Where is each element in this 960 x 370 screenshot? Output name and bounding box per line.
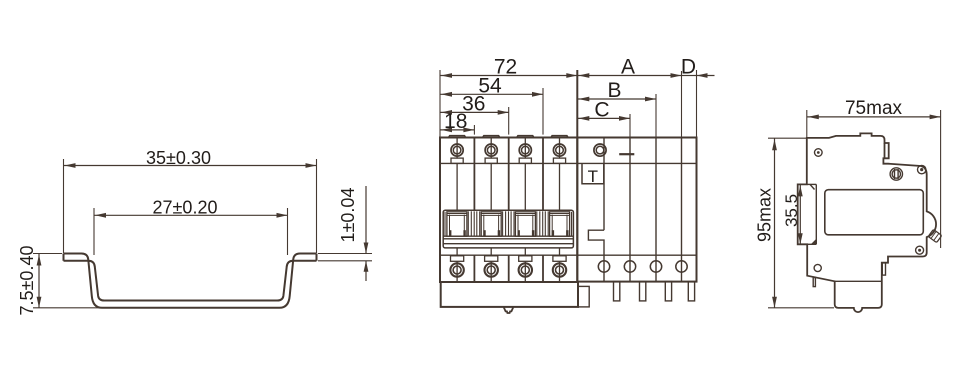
svg-text:C: C [594, 98, 609, 121]
svg-text:D: D [681, 55, 696, 78]
svg-text:95max: 95max [755, 188, 775, 242]
svg-text:7.5±0.40: 7.5±0.40 [17, 246, 37, 316]
svg-text:A: A [621, 55, 635, 78]
svg-text:18: 18 [444, 110, 467, 133]
svg-text:27±0.20: 27±0.20 [153, 198, 218, 218]
svg-text:35±0.30: 35±0.30 [146, 148, 211, 168]
svg-text:T: T [588, 167, 598, 186]
svg-text:1±0.04: 1±0.04 [338, 188, 358, 243]
svg-text:B: B [607, 79, 621, 102]
svg-text:75max: 75max [845, 98, 903, 119]
